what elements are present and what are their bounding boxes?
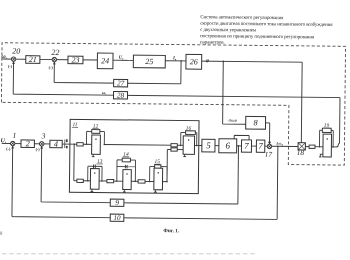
wire: 28 output to junction 20 bbox=[13, 61, 114, 95]
wire stage 13 to resistor bbox=[99, 180, 107, 182]
arrowhead into junction 17 bbox=[268, 142, 271, 144]
wire: stage 15 output bbox=[163, 181, 167, 183]
junction to block 10 bbox=[277, 145, 279, 147]
block 8 (function generator) bbox=[246, 116, 266, 129]
wire: input to summing junction 20 bbox=[3, 58, 12, 60]
block 4 bbox=[50, 140, 62, 149]
op-amp stage 13 (integrator) bbox=[77, 159, 103, 192]
wire 3 to 4 bbox=[44, 143, 50, 145]
ground hook stage 19 bbox=[319, 154, 323, 157]
wire resistor to stage 12 bbox=[83, 143, 91, 145]
block 11 (nonlinear unit, outer box) bbox=[69, 119, 199, 193]
wire: flux line down to multiplier 18 bbox=[300, 62, 303, 142]
title text block bbox=[200, 15, 333, 47]
wire: input to summing junction 1 bbox=[2, 142, 11, 144]
wire 4 to block 11 input bbox=[62, 143, 77, 145]
wire 22 to 23 bbox=[57, 59, 68, 61]
summing junction 1 bbox=[6, 131, 16, 152]
svg-text:8: 8 bbox=[254, 118, 258, 127]
wire: branch to block 8 bbox=[223, 61, 247, 124]
summing junction 17 bbox=[265, 142, 273, 159]
svg-text:4: 4 bbox=[54, 140, 58, 149]
svg-text:-Δω,ψ: -Δω,ψ bbox=[227, 118, 237, 122]
wire 17 to multiplier 18 (Δω) bbox=[272, 145, 298, 147]
op-amp stage 16 (summing amplifier) bbox=[180, 126, 198, 157]
resistor at stage 16 upper input bbox=[171, 144, 177, 147]
summing junction 20 bbox=[8, 46, 20, 68]
svg-text:25: 25 bbox=[145, 57, 153, 66]
resistor at stage 19 input bbox=[309, 145, 315, 148]
wire 1 to 2 bbox=[15, 143, 21, 145]
svg-text:ω,: ω, bbox=[102, 90, 106, 95]
wire: block 9 output to junction 3 bbox=[41, 146, 111, 202]
wire: stage 12 output to stage 16 upper input bbox=[104, 144, 171, 147]
svg-text:6: 6 bbox=[225, 140, 230, 150]
op-amp stage 14 (PI stage) bbox=[116, 152, 137, 192]
block 21 (speed regulator) bbox=[26, 55, 40, 64]
block 25 (thyristor exciter) bbox=[133, 55, 165, 68]
junction: block 11 input branch bbox=[73, 143, 75, 145]
svg-text:27: 27 bbox=[117, 79, 125, 87]
block 2 bbox=[21, 139, 34, 148]
wire resistor to stage 13 bbox=[83, 180, 90, 182]
svg-text:24: 24 bbox=[101, 56, 109, 65]
resistor between stages 14 and 15 bbox=[138, 180, 145, 183]
wire: block 10 output to junction 1 bbox=[12, 146, 111, 218]
svg-text:22: 22 bbox=[51, 48, 59, 57]
wire 25 to 26 (Iв) bbox=[165, 60, 186, 62]
svg-text:(-): (-) bbox=[6, 146, 11, 151]
svg-text:3: 3 bbox=[41, 131, 46, 140]
wire 7 to 7a bbox=[251, 145, 256, 147]
block 23 bbox=[68, 55, 83, 64]
block 28 (speed feedback) bbox=[113, 91, 127, 99]
svg-text:Uу: Uу bbox=[119, 56, 125, 61]
block 10 bbox=[110, 214, 124, 222]
wire: motor speed ω feedback line bbox=[127, 95, 340, 143]
wire: branch into block 9 bbox=[124, 203, 238, 204]
wire resistor to stage 15 bbox=[145, 180, 154, 182]
svg-text:Iв: Iв bbox=[172, 56, 177, 61]
svg-text:1: 1 bbox=[13, 131, 17, 140]
svg-text:17: 17 bbox=[265, 151, 273, 159]
svg-text:10: 10 bbox=[113, 214, 121, 222]
wire: stage 19 output bbox=[331, 146, 336, 148]
wire 21 to 22 bbox=[40, 58, 52, 60]
wire 26 output, flux Φ line bbox=[202, 61, 302, 62]
output squiggle ω bbox=[336, 142, 339, 147]
wire stage 14 to resistor bbox=[131, 180, 138, 182]
block 7a bbox=[256, 140, 265, 152]
wire: block 8 output down to junction 17 bbox=[265, 123, 269, 144]
wire: 27 output to junction 22 bbox=[54, 62, 114, 83]
svg-text:Фиг. 1.: Фиг. 1. bbox=[163, 228, 179, 234]
wire 2 to 3 bbox=[34, 143, 39, 145]
block 9 bbox=[110, 198, 124, 207]
op-amp stage 19 (motor unit) bbox=[319, 123, 335, 157]
wire 6 to 7 bbox=[237, 145, 242, 147]
resistor between stages 13 and 14 bbox=[107, 179, 114, 182]
label 11 bbox=[72, 122, 78, 128]
svg-text:параметров.: параметров. bbox=[200, 40, 225, 45]
page artifact: faint bottom rule bbox=[2, 253, 256, 255]
summing junction 3 bbox=[36, 131, 46, 152]
dashed boundary of regulator unit (L-shaped) bbox=[1, 43, 346, 165]
wire: stage 15 output up to stage 16 lower input bbox=[167, 149, 171, 181]
op-amp stage 12 (first op-amp) bbox=[77, 123, 106, 156]
junction on Iв line bbox=[180, 60, 182, 62]
block 5 bbox=[202, 139, 215, 152]
wire 20 to 21 bbox=[16, 58, 26, 60]
svg-text:(-): (-) bbox=[36, 147, 41, 152]
wire resistor to stage 19 bbox=[315, 146, 323, 148]
svg-text:Система автоматического регули: Система автоматического регулирования bbox=[200, 15, 284, 21]
wire upper resistor to stage 16 bbox=[177, 144, 183, 146]
wire: branch down to stage 13 row bbox=[74, 144, 77, 181]
wire: branch down to block 10 bbox=[124, 145, 278, 220]
wire 18 to resistor bbox=[305, 146, 309, 148]
wire: Iв branch to block 27 bbox=[128, 60, 181, 83]
wire 7a to junction 17 bbox=[265, 145, 267, 147]
svg-text:26: 26 bbox=[190, 57, 198, 66]
summing junction 22 bbox=[49, 48, 60, 70]
block 6 bbox=[219, 139, 237, 153]
svg-text:φ: φ bbox=[206, 58, 209, 64]
multiplier 18 bbox=[297, 143, 306, 157]
junction on flux line bbox=[222, 60, 224, 62]
wire 23 to 24 bbox=[83, 59, 97, 61]
svg-text:(-): (-) bbox=[8, 64, 13, 69]
svg-text:28: 28 bbox=[117, 92, 125, 100]
wire: stage 16 output to block 5 bbox=[194, 144, 201, 146]
wire 5 to 6 bbox=[215, 145, 219, 147]
wire: block 6 top to block 7 top bbox=[234, 135, 249, 140]
svg-text:2: 2 bbox=[26, 139, 30, 148]
svg-text:21: 21 bbox=[29, 55, 37, 64]
wire lower resistor to stage 16 bbox=[177, 149, 183, 151]
svg-text:5: 5 bbox=[206, 140, 211, 150]
block 26 bbox=[186, 54, 202, 69]
svg-text:9: 9 bbox=[115, 198, 119, 207]
wire: branch down to block 9 bbox=[237, 146, 240, 204]
block 27 (field current feedback) bbox=[114, 79, 128, 87]
page artifact: left edge mark bbox=[0, 232, 2, 235]
svg-text:с двухзонным управлением: с двухзонным управлением bbox=[200, 28, 257, 34]
wire resistor to stage 14 bbox=[114, 180, 123, 182]
connector symbol at block 11 input bbox=[65, 139, 67, 148]
svg-text:23: 23 bbox=[71, 55, 79, 64]
svg-text:18: 18 bbox=[297, 149, 305, 157]
svg-text:20: 20 bbox=[12, 47, 20, 56]
block 24 bbox=[97, 53, 113, 69]
block 7 bbox=[241, 140, 251, 152]
svg-text:(-): (-) bbox=[49, 65, 54, 70]
wire 24 to 25 (Uу) bbox=[113, 59, 133, 61]
op-amp stage 15 (inverter stage) bbox=[149, 159, 168, 192]
junction to block 9 bbox=[238, 145, 240, 147]
resistor at stage 16 lower input bbox=[171, 148, 177, 151]
